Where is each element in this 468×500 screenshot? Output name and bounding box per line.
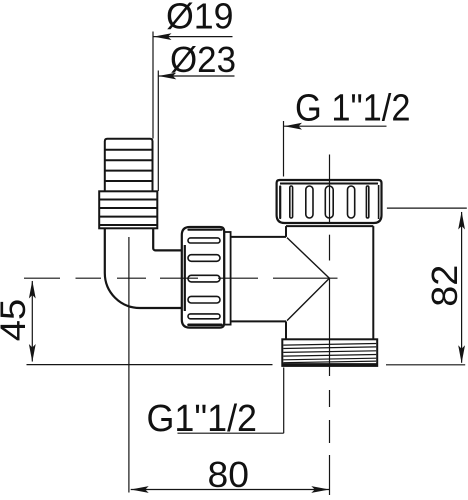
- arrow 80 left: [131, 486, 149, 493]
- dim 82: bottom extension line: [386, 364, 465, 366]
- svg-text:45: 45: [0, 299, 33, 342]
- dim G1"1/2 top: arrow line: [284, 125, 387, 127]
- arrow 45 up: [29, 281, 36, 299]
- elbow body: [105, 228, 182, 308]
- arrow 82 down: [458, 345, 465, 363]
- svg-text:82: 82: [424, 265, 465, 307]
- arrow Ø23 left: [158, 73, 176, 80]
- horizontal centerline (dashed): [24, 277, 338, 279]
- dim 45: dimension line: [31, 281, 33, 362]
- svg-text:G1"1/2: G1"1/2: [147, 398, 258, 440]
- tee vertical body: [286, 226, 373, 339]
- bottom plane extension line (left of thread): [27, 364, 273, 366]
- dim Ø23: extension line: [157, 71, 159, 192]
- dim G1"1/2 top: extension line: [283, 121, 285, 177]
- arrow G top left: [284, 123, 302, 130]
- top nut knurl slots (vertical ovals): [290, 186, 369, 218]
- nut top-face sliver: [189, 229, 222, 231]
- hose barb lower wide section (Ø23): [99, 191, 157, 228]
- dim 82: top extension line: [387, 207, 467, 209]
- thread bottom thick edge: [282, 363, 377, 366]
- dim Ø19: extension line: [152, 32, 154, 139]
- dim Ø23: arrow line: [158, 75, 234, 77]
- top nut left-face silhouette sliver: [279, 187, 281, 219]
- top nut top-face silhouette line: [280, 183, 378, 185]
- dim G1"1/2 bottom: leader vertical: [283, 368, 285, 434]
- nut knurl slots (horizontal ovals): [188, 238, 220, 319]
- top nut right-face silhouette line: [378, 185, 380, 219]
- miter line upper: [287, 238, 329, 279]
- dim 80: dimension line: [131, 489, 330, 491]
- svg-text:Ø19: Ø19: [166, 0, 234, 37]
- outer contour: left edge, outer arc, bottom edge: [105, 228, 182, 308]
- svg-text:80: 80: [208, 454, 250, 495]
- thread crest lines: [283, 344, 376, 363]
- top swivel nut (G 1"1/2): [277, 180, 382, 223]
- arrow Ø19 left: [154, 33, 172, 40]
- male thread (bottom outlet): [282, 339, 377, 366]
- dim G1"1/2 bottom: leader underline: [178, 432, 284, 434]
- dim 82: dimension line: [461, 212, 463, 363]
- nut rear collar: [224, 232, 230, 325]
- miter line lower: [287, 278, 329, 320]
- vertical centerline (tee axis, dashed): [329, 155, 331, 496]
- vertical centerline (elbow axis / 80-dim left extension): [128, 237, 130, 493]
- arrow 45 down: [29, 344, 36, 362]
- hose barb upper section (Ø19): [105, 139, 153, 192]
- body tube between nut and tee: [231, 237, 286, 322]
- nut left-face silhouette line: [184, 245, 186, 311]
- svg-text:Ø23: Ø23: [170, 39, 236, 80]
- arrow 80 right: [311, 486, 329, 493]
- inner contour: right edge, inner arc, top edge: [153, 228, 182, 250]
- svg-text:G 1"1/2: G 1"1/2: [295, 88, 411, 130]
- nut bottom-face sliver: [189, 323, 222, 326]
- union nut (big, on horizontal axis): [182, 227, 224, 328]
- arrow 82 up: [458, 212, 465, 230]
